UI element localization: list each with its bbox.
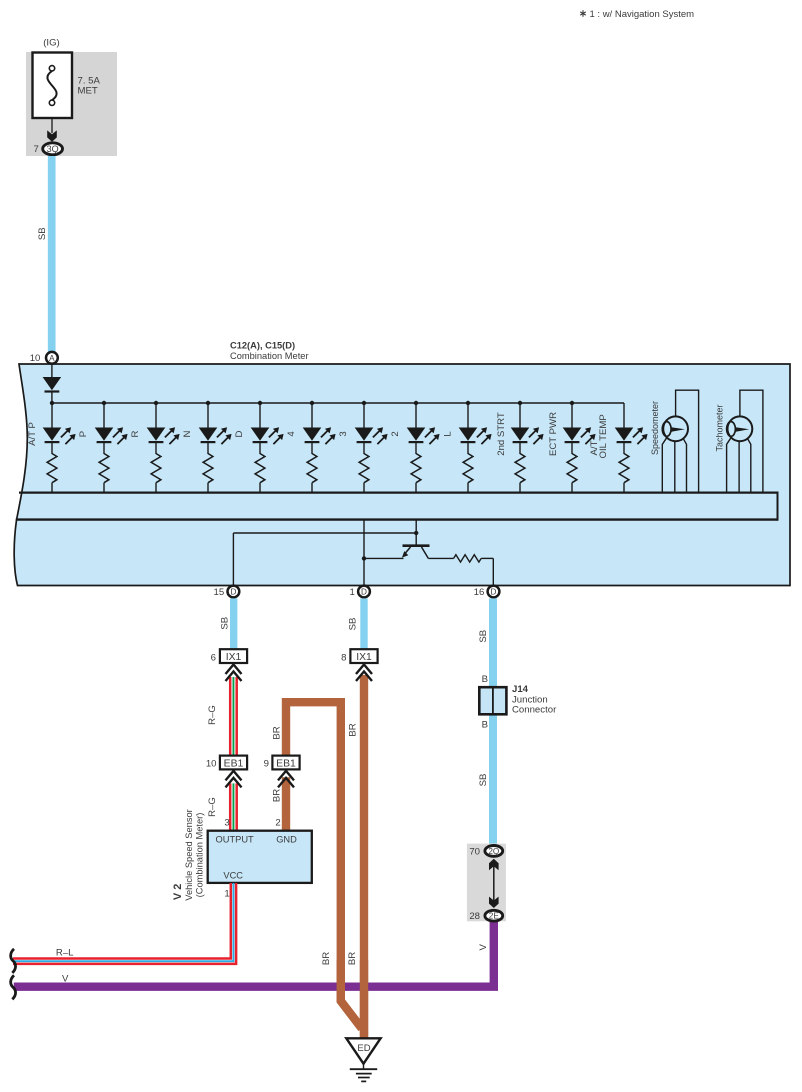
svg-text:V: V xyxy=(62,974,69,985)
svg-text:(IG): (IG) xyxy=(43,38,60,49)
svg-text:ECT PWR: ECT PWR xyxy=(548,412,559,456)
svg-text:8: 8 xyxy=(341,652,346,663)
svg-text:BR: BR xyxy=(347,952,358,965)
svg-text:J14: J14 xyxy=(512,684,529,695)
svg-text:2: 2 xyxy=(275,817,280,828)
svg-text:SB: SB xyxy=(348,618,359,631)
svg-text:BR: BR xyxy=(348,723,359,736)
svg-text:D: D xyxy=(230,588,236,597)
svg-text:IX1: IX1 xyxy=(226,652,242,663)
svg-text:3: 3 xyxy=(338,431,349,436)
svg-text:BR: BR xyxy=(272,789,283,802)
svg-text:28: 28 xyxy=(469,911,480,922)
svg-text:16: 16 xyxy=(474,587,485,598)
svg-text:IX1: IX1 xyxy=(356,652,372,663)
svg-text:Tachometer: Tachometer xyxy=(715,404,725,451)
svg-text:V 2: V 2 xyxy=(172,884,184,901)
svg-text:Combination Meter: Combination Meter xyxy=(230,351,309,361)
svg-text:Vehicle Speed Sensor: Vehicle Speed Sensor xyxy=(184,809,194,900)
svg-text:R–G: R–G xyxy=(207,705,218,725)
svg-text:ED: ED xyxy=(357,1043,370,1054)
svg-text:9: 9 xyxy=(264,759,269,770)
svg-text:V: V xyxy=(478,944,489,951)
svg-text:Connector: Connector xyxy=(512,705,557,716)
svg-text:BR: BR xyxy=(321,952,332,965)
svg-text:2: 2 xyxy=(390,431,401,436)
svg-text:1: 1 xyxy=(349,587,354,598)
svg-text:D: D xyxy=(491,588,497,597)
svg-text:D: D xyxy=(234,430,245,437)
svg-text:A: A xyxy=(49,354,55,363)
svg-text:D: D xyxy=(361,588,367,597)
svg-text:MET: MET xyxy=(78,86,98,97)
svg-text:70: 70 xyxy=(469,846,480,857)
svg-text:A/T P: A/T P xyxy=(27,422,38,446)
svg-text:(Combination Meter): (Combination Meter) xyxy=(195,813,205,898)
svg-text:3Q: 3Q xyxy=(47,144,59,154)
svg-text:L: L xyxy=(442,431,453,437)
svg-text:1 : w/ Navigation System: 1 : w/ Navigation System xyxy=(590,9,695,20)
svg-text:SB: SB xyxy=(220,617,231,630)
svg-text:B: B xyxy=(482,720,488,731)
svg-text:OIL TEMP: OIL TEMP xyxy=(598,414,609,458)
svg-text:SB: SB xyxy=(37,227,48,240)
svg-text:C12(A), C15(D): C12(A), C15(D) xyxy=(230,341,295,351)
svg-text:SB: SB xyxy=(478,774,489,787)
svg-text:7: 7 xyxy=(33,144,38,155)
svg-text:4: 4 xyxy=(286,431,297,437)
svg-text:15: 15 xyxy=(214,587,225,598)
svg-text:VCC: VCC xyxy=(223,870,243,880)
svg-text:Junction: Junction xyxy=(512,694,548,705)
svg-text:10: 10 xyxy=(206,759,217,770)
svg-text:EB1: EB1 xyxy=(224,758,244,769)
svg-text:6: 6 xyxy=(211,652,216,663)
svg-text:B: B xyxy=(482,674,488,685)
svg-text:3: 3 xyxy=(224,817,229,828)
svg-text:2Q: 2Q xyxy=(488,847,499,856)
svg-text:P: P xyxy=(78,431,89,437)
svg-text:10: 10 xyxy=(30,353,41,364)
svg-text:OUTPUT: OUTPUT xyxy=(216,835,255,845)
svg-text:1: 1 xyxy=(224,888,229,899)
svg-text:2E: 2E xyxy=(489,912,500,921)
svg-text:R–G: R–G xyxy=(207,797,218,817)
svg-text:N: N xyxy=(182,430,193,437)
svg-text:GND: GND xyxy=(276,835,297,845)
svg-text:EB1: EB1 xyxy=(276,758,296,769)
svg-text:BR: BR xyxy=(272,726,283,739)
svg-text:2nd STRT: 2nd STRT xyxy=(496,412,507,456)
svg-text:R: R xyxy=(130,430,141,437)
svg-text:SB: SB xyxy=(478,630,489,643)
svg-text:R–L: R–L xyxy=(56,948,74,959)
svg-text:Speedometer: Speedometer xyxy=(650,401,660,455)
